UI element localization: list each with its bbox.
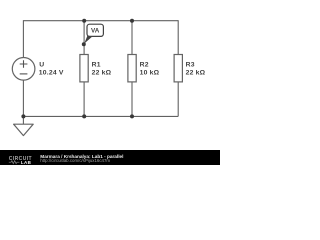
voltage source U value label [39,62,64,77]
svg-text:10.24 V: 10.24 V [39,69,64,76]
resistor R2 value label [140,61,160,76]
node junction bottom left [21,114,25,118]
resistor R2 [128,55,136,82]
svg-text:R2: R2 [140,61,149,68]
svg-text:22 kΩ: 22 kΩ [92,69,112,76]
node probe attachment [82,42,86,46]
footer bar [0,150,220,165]
wire R2 top [131,21,133,55]
resistor R1 value label [92,61,112,76]
svg-text:R1: R1 [92,61,101,68]
node junction bottom R1 [82,114,86,118]
node junction bottom R2 [130,114,134,118]
wire R3 top [177,20,179,54]
wire from source to bottom bus and ground [22,80,24,124]
resistor R1 [80,55,88,82]
svg-text:U: U [39,62,44,69]
wire bottom bus [23,115,178,117]
wire R1 top [83,21,85,55]
svg-text:22 kΩ: 22 kΩ [186,69,206,76]
svg-text:http://circuitlab.com/c/sPijux: http://circuitlab.com/c/sPijux16c47m [40,158,110,163]
probe VA pointer [84,35,92,44]
resistor R3 value label [186,61,206,76]
ground [14,124,34,135]
probe VA box [87,24,103,36]
svg-text:R3: R3 [186,61,195,68]
wire R3 bottom [177,82,179,117]
wire R1 bottom [83,82,85,117]
node junction top R1 [82,19,86,23]
wire top bus [23,20,178,22]
footer CircuitLab logo [9,156,32,165]
wire left vertical from top bus to source [22,20,24,57]
node junction top R2 [130,19,134,23]
voltage source U [12,58,35,81]
svg-text:10 kΩ: 10 kΩ [140,69,160,76]
svg-text:VA: VA [91,28,100,35]
svg-text:LAB: LAB [21,160,32,165]
wire R2 bottom [131,82,133,117]
resistor R3 [174,55,182,82]
